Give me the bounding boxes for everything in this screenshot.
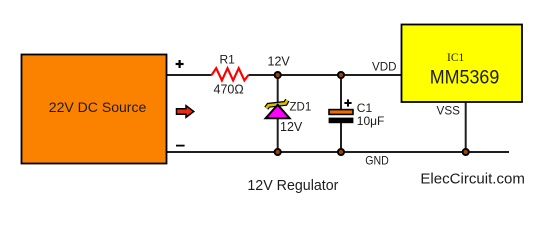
svg-text:12V Regulator: 12V Regulator — [247, 178, 338, 194]
svg-text:R1: R1 — [220, 52, 236, 66]
svg-text:22V DC Source: 22V DC Source — [49, 100, 147, 116]
svg-text:12V: 12V — [268, 54, 291, 68]
svg-text:12V: 12V — [280, 120, 303, 134]
svg-text:10μF: 10μF — [357, 114, 385, 128]
svg-text:MM5369: MM5369 — [430, 68, 500, 89]
svg-text:470Ω: 470Ω — [214, 83, 244, 97]
svg-text:ZD1: ZD1 — [290, 102, 312, 114]
svg-text:IC1: IC1 — [447, 52, 464, 64]
svg-text:VSS: VSS — [437, 103, 461, 117]
svg-text:VDD: VDD — [372, 59, 397, 73]
svg-text:ElecCircuit.com: ElecCircuit.com — [420, 171, 525, 188]
svg-text:GND: GND — [365, 154, 389, 168]
svg-text:C1: C1 — [357, 101, 373, 115]
